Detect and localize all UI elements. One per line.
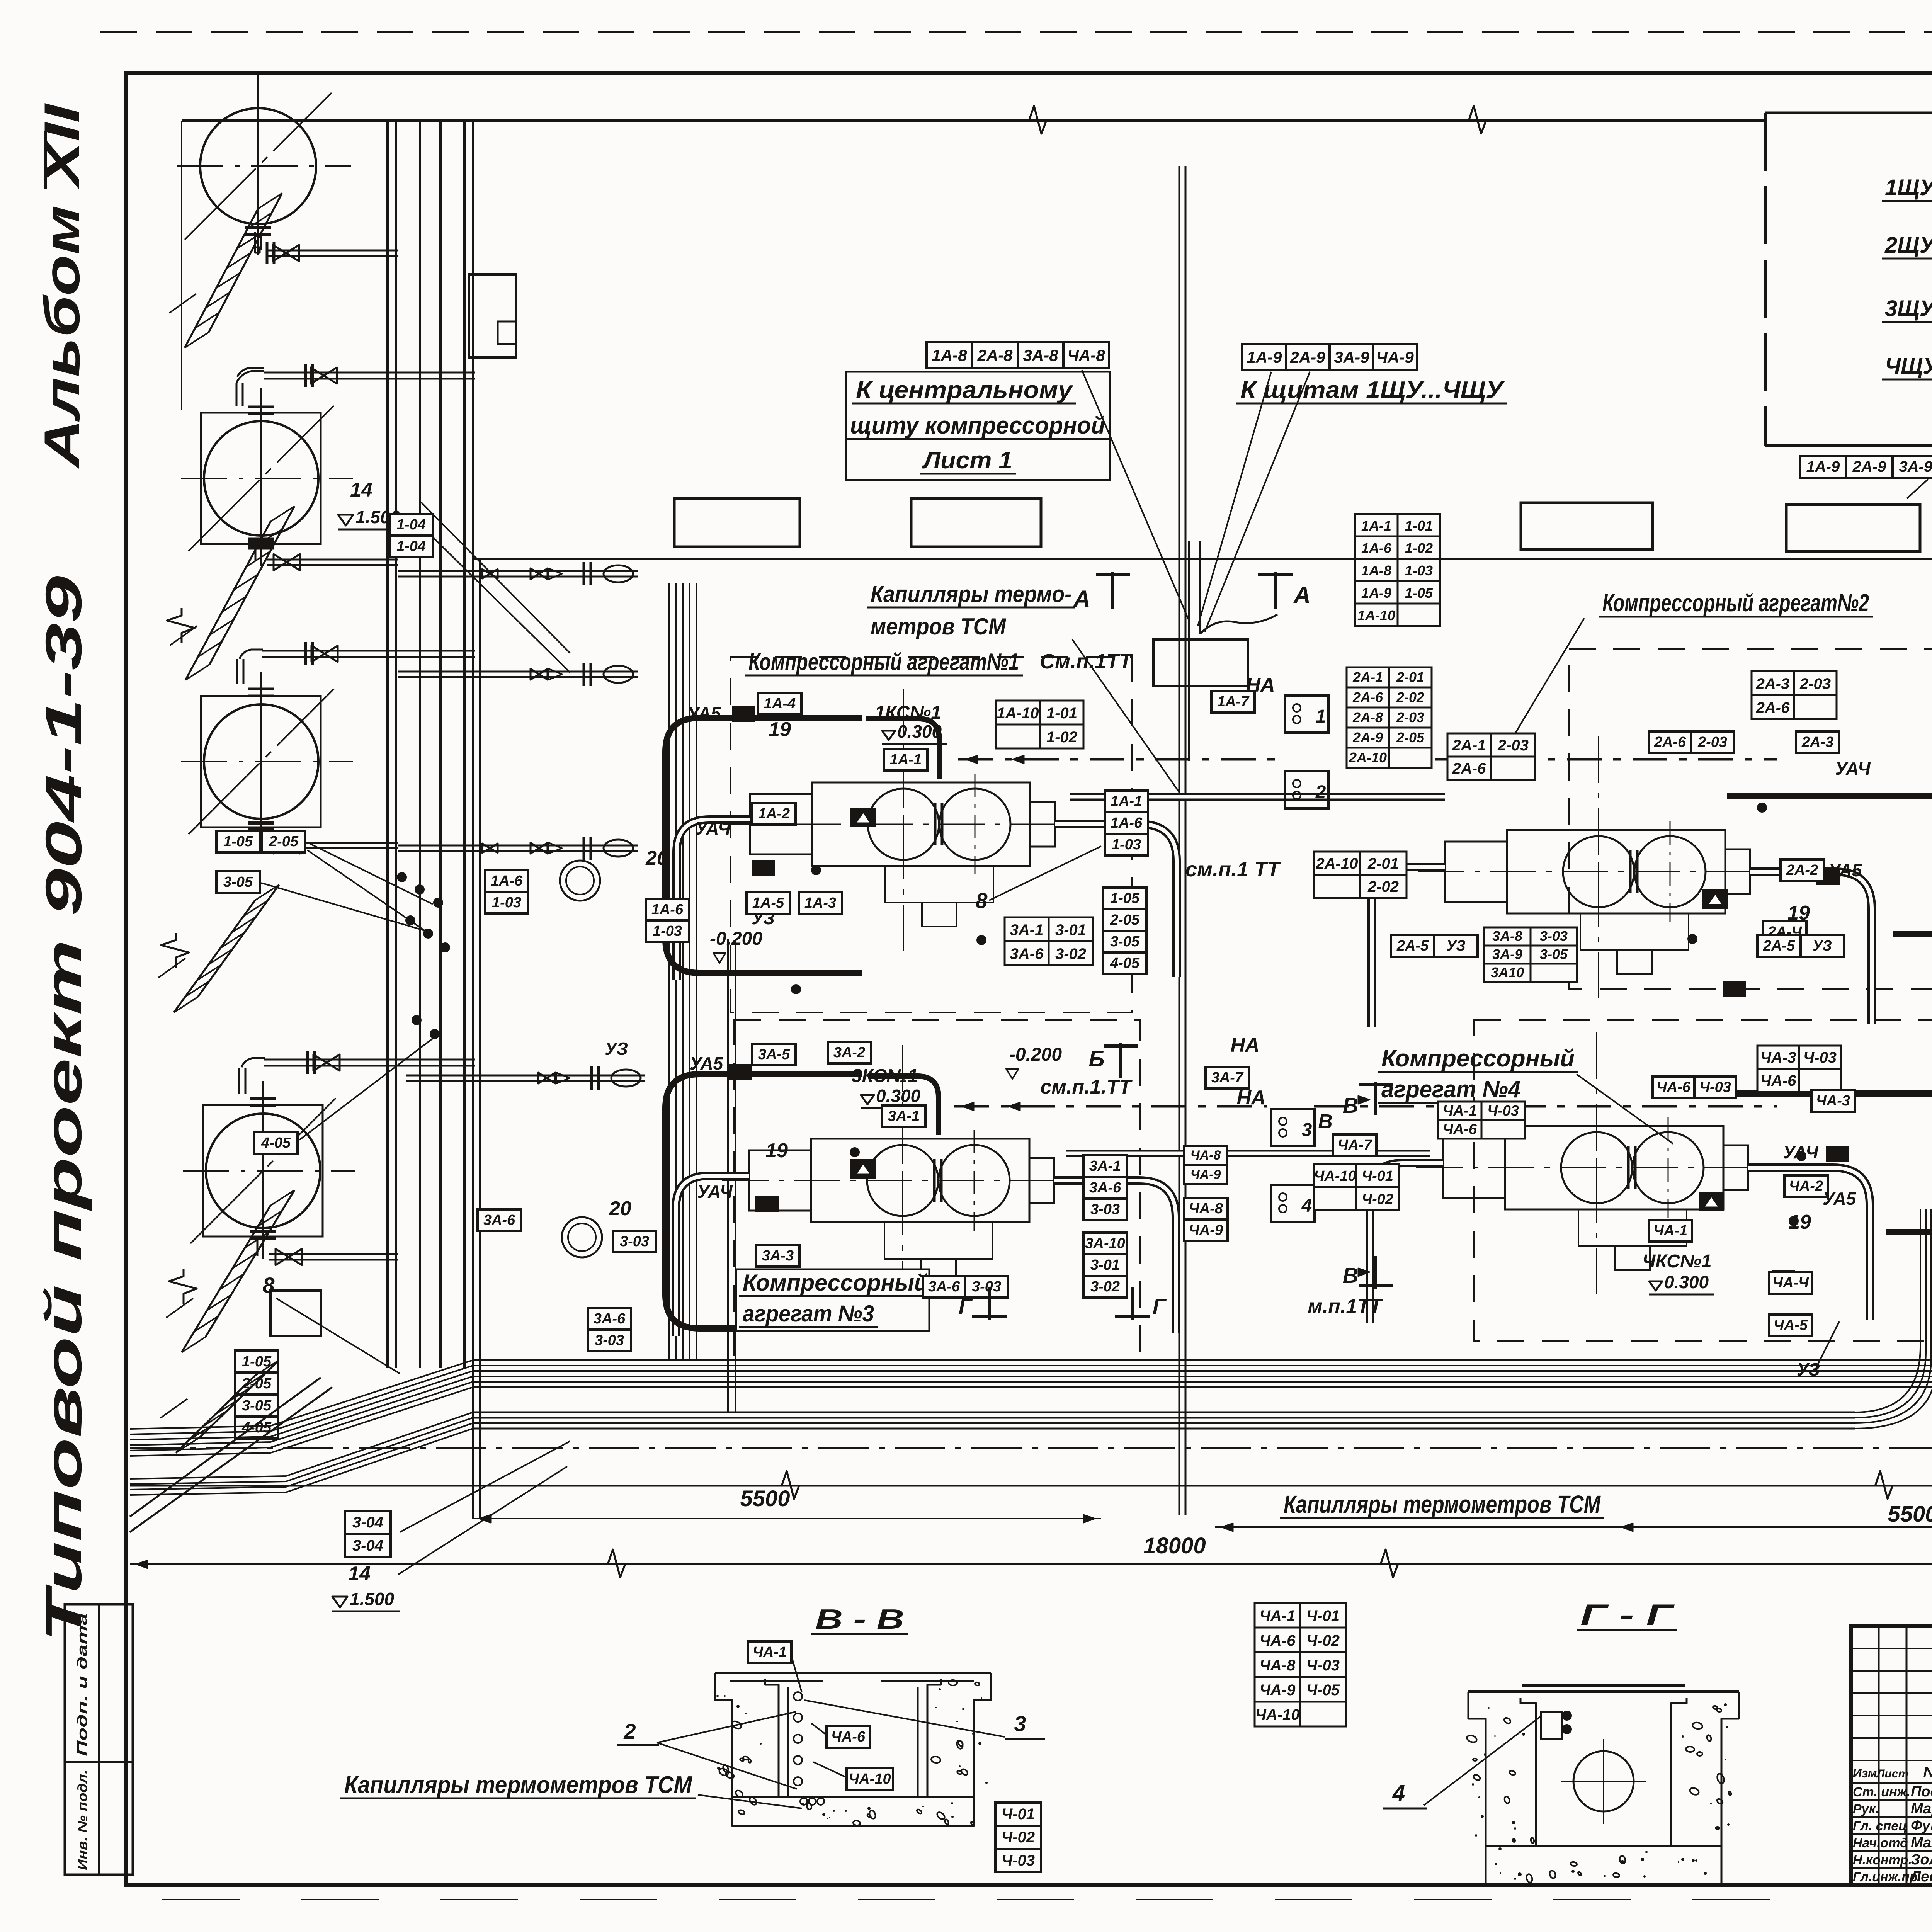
section V-V leader 3 <box>804 1700 1045 1739</box>
stair band 1 <box>169 193 282 348</box>
svg-text:ЧА-10: ЧА-10 <box>1255 1706 1299 1723</box>
text 19 unit3 <box>765 1139 788 1162</box>
svg-text:1-05: 1-05 <box>1110 890 1140 906</box>
text UACH unit4 <box>1783 1142 1819 1162</box>
svg-text:ЧА-Ч: ЧА-Ч <box>1772 1275 1809 1291</box>
labels column 1A-1 1A-6 1-03 <box>1105 791 1148 855</box>
svg-text:2А-8: 2А-8 <box>977 346 1013 364</box>
tank 2 bottom pipe and valve <box>248 541 398 570</box>
svg-text:Ч-03: Ч-03 <box>1002 1852 1035 1869</box>
labels 2A-3 2-03 2A-6 block <box>1752 671 1837 719</box>
svg-text:2А-1: 2А-1 <box>1452 737 1486 754</box>
tank 3 top pipe and valve <box>237 642 475 696</box>
svg-text:ЧА-10: ЧА-10 <box>1314 1168 1356 1184</box>
svg-text:Капилляры термометров ТСМ: Капилляры термометров ТСМ <box>344 1772 692 1798</box>
black sensors <box>733 706 755 721</box>
svg-text:1-04: 1-04 <box>396 538 426 554</box>
text sm.p.1.TT unit3 <box>1041 1076 1133 1098</box>
svg-text:Типовой проект 904-1-39: Типовой проект 904-1-39 <box>35 576 92 1642</box>
text UA5 19 unit1 <box>687 703 791 741</box>
label 4-05 <box>254 1038 434 1154</box>
svg-text:3А-10: 3А-10 <box>1085 1235 1125 1252</box>
svg-text:2А-10: 2А-10 <box>1349 750 1387 765</box>
svg-text:3А-9: 3А-9 <box>1334 348 1369 366</box>
label ChA-Ch <box>1769 1272 1812 1294</box>
svg-text:К центральному: К центральному <box>856 377 1074 403</box>
text UZ unit4 <box>1797 1321 1839 1379</box>
svg-text:Б: Б <box>1088 1046 1104 1071</box>
svg-text:1А-7: 1А-7 <box>1217 694 1250 710</box>
long solid line under plan with breaks <box>130 1471 1932 1499</box>
unit 4 thick pipe loop <box>1723 1094 1932 1232</box>
oil separator unit3 <box>562 1217 602 1257</box>
wall right vertical <box>472 121 474 1519</box>
label 8 lower-left <box>262 1273 400 1374</box>
svg-text:1-01: 1-01 <box>1046 705 1077 722</box>
svg-text:3ЩУ: 3ЩУ <box>1885 296 1932 321</box>
svg-text:А: А <box>1293 582 1310 608</box>
svg-text:1ЩУ: 1ЩУ <box>1885 175 1932 200</box>
label 3A-6 3-03 pair <box>923 1276 1008 1298</box>
labels 2A-10 2-01 2-02 block <box>1314 852 1406 898</box>
text UA5 unit3 <box>690 1053 724 1073</box>
labels 1A-5 1A-3 <box>747 892 842 914</box>
svg-text:УА5: УА5 <box>1823 1189 1857 1209</box>
oil separator unit1 <box>560 861 600 901</box>
text 20 unit1 <box>645 847 668 869</box>
svg-text:УЗ: УЗ <box>605 1039 628 1059</box>
labels 1A-6 1-03 pair a <box>646 899 689 942</box>
compressor unit4 title <box>1378 1045 1673 1144</box>
flow meter unit3 <box>851 1160 875 1178</box>
svg-text:4: 4 <box>1301 1196 1312 1216</box>
svg-text:1-03: 1-03 <box>1405 563 1433 578</box>
svg-text:Изм: Изм <box>1853 1766 1877 1780</box>
top-left step structure <box>469 274 516 357</box>
svg-text:1-02: 1-02 <box>1046 729 1077 746</box>
svg-text:2А-9: 2А-9 <box>1289 348 1325 366</box>
svg-text:5500: 5500 <box>1888 1502 1932 1527</box>
section V-V label ChA-1 <box>748 1641 802 1692</box>
section V-V label ChA-10 <box>813 1762 893 1790</box>
label 14 elevation 1.500 bottom <box>332 1441 570 1611</box>
section cut G marks <box>959 1287 1167 1320</box>
section V-V label ChA-6 <box>811 1723 870 1748</box>
compressor unit 2 dashed enclosure <box>1569 649 1932 989</box>
bottom-left diagonals <box>130 1378 332 1532</box>
svg-text:14: 14 <box>348 1563 371 1585</box>
svg-text:19: 19 <box>769 718 791 741</box>
compressor unit 4 body <box>1416 1032 1799 1299</box>
svg-text:1КС№1: 1КС№1 <box>875 702 941 723</box>
svg-text:1А-5: 1А-5 <box>752 895 784 911</box>
svg-text:ЧА-6: ЧА-6 <box>1260 1632 1296 1649</box>
svg-text:ЧА-9: ЧА-9 <box>1260 1682 1296 1699</box>
row boxes 1A-8..ChA-8 <box>927 342 1109 368</box>
label 3A-1 <box>882 1105 925 1127</box>
svg-text:14: 14 <box>350 479 372 501</box>
svg-text:ЧА-5: ЧА-5 <box>1774 1317 1808 1333</box>
svg-text:см.п.1.ТТ: см.п.1.ТТ <box>1041 1076 1133 1098</box>
unit 2 thick pipe loop <box>1727 796 1932 934</box>
label 3-05 left <box>216 871 427 931</box>
compressor unit 3 body <box>722 1045 1105 1312</box>
svg-text:0.300: 0.300 <box>1664 1272 1709 1292</box>
tank 1 outlet pipe and valve <box>255 232 398 264</box>
svg-text:1А-6: 1А-6 <box>1111 815 1143 831</box>
svg-text:3А-1: 3А-1 <box>888 1108 920 1124</box>
svg-text:2А-5: 2А-5 <box>1763 938 1795 954</box>
labels ChA-1 Ch-03 ChA-6 block <box>1438 1102 1525 1139</box>
title block outer frame <box>1851 1626 1932 1885</box>
svg-text:2-03: 2-03 <box>1396 709 1424 725</box>
svg-text:2А-9: 2А-9 <box>1352 730 1383 745</box>
section V-V leader 2 <box>617 1712 797 1789</box>
compressor unit 1 dashed enclosure <box>730 657 1132 1012</box>
stair band 3 <box>158 885 279 1012</box>
labels 1-04 1-04 <box>389 514 570 672</box>
svg-text:3: 3 <box>1302 1120 1312 1140</box>
svg-text:НА: НА <box>1236 1087 1265 1109</box>
svg-text:-0.200: -0.200 <box>1009 1044 1062 1065</box>
svg-text:19: 19 <box>1789 1211 1811 1233</box>
compressor unit3 title <box>736 1269 932 1331</box>
flow meter unit2 <box>1703 890 1727 908</box>
to central panel text block <box>846 372 1110 480</box>
bottom-left stair band <box>160 1360 279 1453</box>
svg-text:Капилляры термо-: Капилляры термо- <box>871 581 1071 607</box>
tank 4 top pipe and valve <box>239 1051 475 1105</box>
text UA5 unit4 <box>1823 1189 1857 1209</box>
wall break marks left <box>161 608 197 1304</box>
svg-text:0.300: 0.300 <box>897 721 942 742</box>
text UA5 unit2 <box>1828 860 1862 880</box>
svg-text:2А-6: 2А-6 <box>1352 689 1383 705</box>
svg-text:агрегат №3: агрегат №3 <box>743 1301 874 1327</box>
svg-text:см.п.1 ТТ: см.п.1 ТТ <box>1185 858 1281 881</box>
text UZ unit3 <box>605 1039 628 1059</box>
svg-text:4: 4 <box>1392 1781 1405 1806</box>
label 3A-7 <box>1206 1067 1249 1088</box>
svg-text:Инв. № подл.: Инв. № подл. <box>75 1770 90 1870</box>
svg-text:ЧА-9: ЧА-9 <box>1376 348 1414 366</box>
svg-text:2-05: 2-05 <box>1110 912 1140 928</box>
labels column 1-05..4-05 <box>1103 888 1146 974</box>
tank 4 bottom pipe and valve <box>250 1231 398 1265</box>
hall center axis double line <box>1179 166 1185 1515</box>
table 3A pairs <box>1005 917 1093 965</box>
labels ChA-3 Ch-03 ChA-6 block <box>1757 1046 1841 1092</box>
labels 1SCHU-4SCHU <box>1882 175 1932 399</box>
svg-text:Мажников: Мажников <box>1911 1835 1932 1851</box>
label 1A-7 <box>1211 691 1255 713</box>
svg-text:Ч-02: Ч-02 <box>1306 1632 1340 1649</box>
svg-text:1-05: 1-05 <box>1405 585 1433 601</box>
svg-text:1А-6: 1А-6 <box>651 901 684 918</box>
svg-text:3А-9: 3А-9 <box>1899 458 1932 475</box>
svg-text:3-05: 3-05 <box>1110 934 1140 950</box>
label 3A-3 <box>756 1245 799 1267</box>
hall left wall inner line <box>479 559 481 1519</box>
text m.p.1TT unit4 <box>1308 1295 1383 1318</box>
svg-text:1А-1: 1А-1 <box>1361 518 1391 534</box>
svg-text:20: 20 <box>609 1197 631 1220</box>
svg-text:ЧА-8: ЧА-8 <box>1190 1148 1221 1163</box>
svg-text:3А-9: 3А-9 <box>1492 946 1522 962</box>
section cut B marks <box>1088 1043 1138 1078</box>
text UZ unit1 <box>752 908 775 928</box>
svg-text:ЧА-6: ЧА-6 <box>831 1729 866 1745</box>
stair band 4 <box>166 1190 294 1352</box>
svg-text:ЧЩУ: ЧЩУ <box>1885 354 1932 379</box>
svg-text:В: В <box>1318 1111 1333 1133</box>
fitting assembly 1 <box>398 562 638 585</box>
svg-text:УА5: УА5 <box>690 1053 724 1073</box>
svg-text:метров ТСМ: метров ТСМ <box>871 614 1007 639</box>
svg-text:8: 8 <box>262 1273 275 1297</box>
labels 1-05 2-05 left <box>216 831 433 935</box>
svg-text:Ч-03: Ч-03 <box>1487 1103 1519 1119</box>
svg-text:Компрессорный агрегат№1: Компрессорный агрегат№1 <box>748 649 1019 675</box>
svg-text:2: 2 <box>623 1719 636 1743</box>
left margin rotated text: Album XII <box>34 103 90 469</box>
tank 4 <box>183 1081 355 1259</box>
svg-text:3А-5: 3А-5 <box>758 1046 790 1063</box>
svg-text:Марченко: Марченко <box>1911 1801 1932 1817</box>
svg-text:Альбом ХII: Альбом ХII <box>34 103 90 469</box>
row boxes 1A-9..ChA-9 second <box>1242 344 1417 370</box>
svg-text:2А-10: 2А-10 <box>1316 855 1358 872</box>
svg-text:ЧА-9: ЧА-9 <box>1190 1167 1221 1182</box>
secondary band right elbows up <box>1855 1209 1932 1429</box>
svg-text:1.500: 1.500 <box>350 1589 395 1609</box>
text 20 unit3 <box>609 1197 631 1220</box>
svg-text:3А-6: 3А-6 <box>483 1212 515 1228</box>
svg-text:1А-8: 1А-8 <box>932 346 967 364</box>
svg-text:3КС№1: 3КС№1 <box>852 1066 918 1086</box>
junction boxes NA lower <box>1236 1087 1332 1222</box>
table 2A list <box>1347 667 1432 768</box>
svg-text:3А10: 3А10 <box>1491 964 1524 980</box>
svg-text:1А-6: 1А-6 <box>1361 540 1392 556</box>
svg-text:Н.контр.: Н.контр. <box>1853 1853 1912 1867</box>
svg-text:Ч-02: Ч-02 <box>1002 1829 1035 1846</box>
svg-text:3-05: 3-05 <box>242 1398 272 1414</box>
svg-text:2-02: 2-02 <box>1396 689 1424 705</box>
svg-text:2-01: 2-01 <box>1396 669 1424 685</box>
svg-text:3-03: 3-03 <box>1540 928 1568 944</box>
svg-text:ЧА-8: ЧА-8 <box>1189 1201 1223 1217</box>
compressor unit1 title <box>745 649 1023 675</box>
top edge dashed line <box>100 31 1932 33</box>
svg-text:2А-6: 2А-6 <box>1756 699 1790 716</box>
svg-text:Ч-03: Ч-03 <box>1306 1657 1340 1674</box>
svg-text:0.300: 0.300 <box>876 1086 921 1106</box>
labels 2A-5 UZ <box>1757 935 1844 957</box>
text 19 unit4 <box>1789 1211 1811 1233</box>
label ChA-3 <box>1811 1090 1855 1112</box>
svg-text:2-03: 2-03 <box>1497 737 1529 754</box>
svg-text:УА5: УА5 <box>687 703 721 723</box>
svg-text:1-03: 1-03 <box>492 895 521 911</box>
fitting assembly 3 <box>398 837 638 860</box>
svg-text:1-05: 1-05 <box>223 833 253 850</box>
skylight rect 1 <box>674 498 800 547</box>
to panels 1SCHU text <box>1236 377 1507 403</box>
main pipe between units 1-2 <box>1070 793 1445 801</box>
svg-text:1-04: 1-04 <box>396 517 426 533</box>
svg-text:3-03: 3-03 <box>1090 1201 1120 1218</box>
long dash-dot line under plan <box>130 1447 1932 1449</box>
svg-text:ЧА-6: ЧА-6 <box>1760 1072 1797 1089</box>
leader from room to box row <box>1907 479 1928 498</box>
label ChA-2 <box>1784 1175 1828 1197</box>
skylight rect 3 <box>1521 503 1653 549</box>
svg-text:УЗ: УЗ <box>1797 1359 1820 1379</box>
svg-text:1А-10: 1А-10 <box>997 705 1039 722</box>
section V-V channel <box>715 1673 991 1826</box>
svg-text:2: 2 <box>1315 782 1326 803</box>
svg-text:Ч-01: Ч-01 <box>1306 1607 1340 1624</box>
table 3A second <box>1484 927 1577 982</box>
bottom-left building rect <box>270 1291 321 1336</box>
labels 3-04 3-04 bottom <box>345 1511 391 1557</box>
text sm.p.1TT unit1 inner <box>1185 858 1281 881</box>
section V-V capillaries text <box>340 1772 802 1808</box>
labels column 3A-1 3A-6 3-03 <box>1083 1155 1127 1220</box>
svg-text:3А-7: 3А-7 <box>1211 1070 1244 1086</box>
label 1KS elevation <box>875 702 947 744</box>
instrument trunk line upper <box>958 755 1777 764</box>
svg-text:3-02: 3-02 <box>1055 946 1086 963</box>
svg-text:Г: Г <box>1153 1294 1167 1318</box>
label ChA-1 ChKS elevation <box>1642 1220 1714 1294</box>
svg-text:19: 19 <box>765 1139 788 1162</box>
svg-text:2-03: 2-03 <box>1697 734 1727 750</box>
svg-text:ЧА-1: ЧА-1 <box>753 1644 787 1660</box>
skylight rect 4 <box>1786 505 1920 551</box>
unit 3 thick pipe loop <box>665 1074 862 1328</box>
panel room walls <box>1765 113 1932 459</box>
label 1A-1 <box>884 749 927 770</box>
junction boxes NA upper <box>1246 674 1328 808</box>
svg-text:В - В: В - В <box>815 1604 904 1635</box>
label ChA-5 <box>1769 1315 1812 1336</box>
svg-text:ЧА-7: ЧА-7 <box>1338 1137 1372 1153</box>
svg-text:ЧА-2: ЧА-2 <box>1789 1178 1823 1194</box>
left margin rotated text: project number <box>35 576 92 1642</box>
labels ChA-8 ChA-9 mid <box>1184 1198 1228 1241</box>
tank 2 <box>181 388 353 566</box>
svg-text:2-05: 2-05 <box>1396 730 1425 745</box>
svg-text:УЗ: УЗ <box>1813 938 1832 954</box>
riser pipes center <box>1153 541 1277 761</box>
label 14 elevation 1.500 top <box>338 479 570 653</box>
svg-text:3А-6: 3А-6 <box>928 1279 960 1295</box>
channel band left slope to margin <box>130 1360 473 1456</box>
svg-text:3А-3: 3А-3 <box>762 1248 794 1264</box>
svg-text:8: 8 <box>975 888 988 913</box>
svg-text:Посупонько: Посупонько <box>1911 1784 1932 1800</box>
svg-text:УАЧ: УАЧ <box>697 1182 733 1202</box>
label 2A-6 2-03 pair <box>1649 731 1734 753</box>
labels column 3A-10 3-01 3-02 <box>1083 1233 1127 1298</box>
svg-text:2А-8: 2А-8 <box>1352 709 1383 725</box>
svg-text:-0.200: -0.200 <box>710 929 762 949</box>
vertical tube bundle 2 <box>728 939 736 1412</box>
svg-text:1А-4: 1А-4 <box>764 696 796 712</box>
svg-text:Ч-05: Ч-05 <box>1306 1682 1340 1699</box>
svg-text:1А-3: 1А-3 <box>804 895 836 911</box>
svg-text:Фукс: Фукс <box>1911 1818 1932 1834</box>
svg-text:Золотарева: Золотарева <box>1911 1852 1932 1868</box>
svg-text:Г: Г <box>959 1294 973 1318</box>
svg-text:ЧА-6: ЧА-6 <box>1656 1079 1691 1095</box>
svg-text:ЧА-3: ЧА-3 <box>1760 1049 1796 1066</box>
svg-text:4-05: 4-05 <box>1110 955 1140 971</box>
svg-text:Гл. спец: Гл. спец <box>1853 1819 1907 1833</box>
compressor unit 2 body <box>1418 736 1801 1003</box>
svg-text:Лист 1: Лист 1 <box>922 447 1012 474</box>
label 2A-4 <box>1763 921 1806 943</box>
instrument trunk line lower <box>954 1102 1777 1111</box>
table 1A list <box>1355 514 1440 626</box>
svg-text:Ст. инж.: Ст. инж. <box>1853 1785 1910 1799</box>
svg-text:3-01: 3-01 <box>1090 1257 1120 1273</box>
svg-text:3-05: 3-05 <box>1540 946 1568 962</box>
svg-text:Компрессорный: Компрессорный <box>743 1270 928 1296</box>
pipe rack vertical lines <box>388 121 464 1368</box>
capillaries thermo text top <box>867 581 1182 797</box>
svg-text:1-02: 1-02 <box>1405 540 1433 556</box>
labels ChA-8 ChA-9 small <box>1184 1146 1227 1184</box>
section V-V labels Ch-01..Ch-03 <box>995 1803 1041 1872</box>
label 1A-4 <box>758 693 801 714</box>
svg-text:УАЧ: УАЧ <box>1783 1142 1819 1162</box>
svg-text:2А-3: 2А-3 <box>1756 675 1790 692</box>
section G-G table <box>1255 1603 1346 1726</box>
label 2A-5 UZ upper <box>1391 935 1478 957</box>
text UACH unit1 <box>695 818 731 838</box>
main underground channel band <box>473 1360 1932 1387</box>
leader lines from label rows to riser <box>1082 370 1310 632</box>
svg-text:См.п.1ТТ: См.п.1ТТ <box>1040 650 1133 673</box>
tank 2 top pipe and valve <box>236 364 475 414</box>
svg-text:1А-1: 1А-1 <box>1111 793 1142 810</box>
dimension 18000 <box>130 1533 1932 1577</box>
title block left grid <box>1851 1626 1932 1885</box>
svg-text:3-04: 3-04 <box>352 1537 383 1554</box>
labels 3A-6 3-03 left pair <box>588 1308 631 1351</box>
section V-V title <box>811 1604 908 1635</box>
text -0.200 unit3 <box>1006 1044 1062 1079</box>
unit 3 main pipes <box>676 1176 1176 1336</box>
compressor unit 4 dashed enclosure <box>1474 1020 1932 1341</box>
label ChA-7 <box>1333 1134 1376 1156</box>
label 3KS elevation <box>852 1066 926 1108</box>
unit 1 thick branch <box>866 719 939 779</box>
svg-text:2-05: 2-05 <box>269 833 299 850</box>
label 2A-2 <box>1781 859 1824 881</box>
svg-text:Ч-03: Ч-03 <box>1803 1049 1837 1066</box>
fitting assembly 2 <box>398 663 638 686</box>
svg-text:3: 3 <box>1014 1711 1026 1736</box>
svg-text:ЧА-8: ЧА-8 <box>1260 1657 1296 1674</box>
unit 1 main pipes <box>677 820 1177 980</box>
flow meter unit1 <box>851 809 875 827</box>
skylight rect 2 <box>911 498 1041 547</box>
label 1A-2 <box>752 803 796 825</box>
